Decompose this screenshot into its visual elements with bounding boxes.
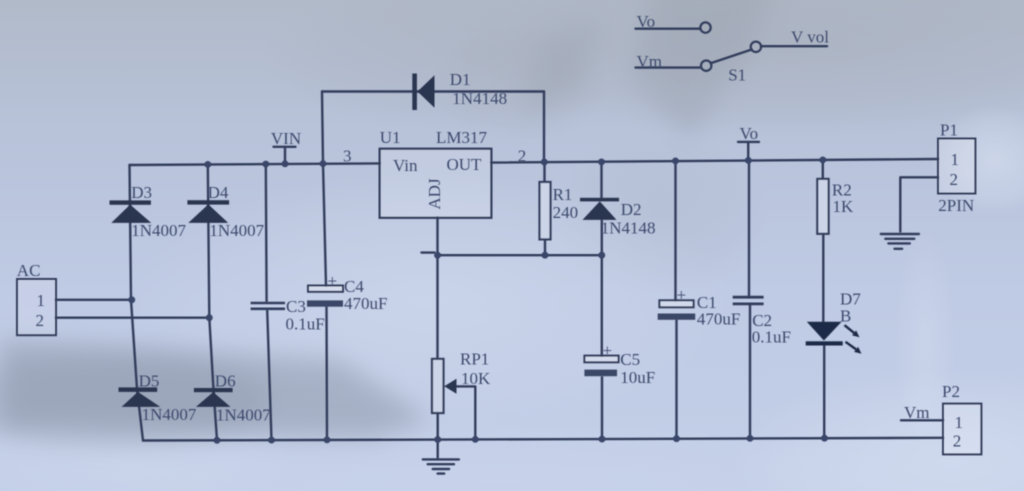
wire AC pin1 — [56, 299, 132, 301]
node C4/D1 junction — [320, 160, 327, 167]
wire D1 right riser — [543, 92, 545, 163]
node pin2/R1 junction — [541, 159, 548, 166]
diode D4 cathode bar — [187, 200, 229, 204]
svg-text:1: 1 — [955, 413, 964, 432]
diode D5 cathode bar — [119, 387, 158, 392]
potentiometer RP1 body — [432, 359, 444, 413]
svg-text:0.1uF: 0.1uF — [752, 327, 791, 346]
op-amp regulator U1 LM317 body — [380, 149, 492, 218]
LED D7 light arrow 1 — [845, 325, 860, 337]
svg-text:AC: AC — [17, 261, 41, 280]
svg-text:+: + — [328, 272, 338, 291]
svg-text:1N4007: 1N4007 — [216, 406, 271, 425]
svg-text:3: 3 — [343, 147, 352, 166]
wire C2 riser top — [748, 160, 750, 296]
wire AC pin2 — [56, 317, 209, 319]
node C3 top junction — [262, 161, 269, 168]
svg-text:P1: P1 — [940, 120, 958, 139]
node C5 bottom junction — [599, 436, 606, 443]
diode D2 triangle — [583, 201, 617, 220]
LED D7 light arrow 2 — [846, 342, 862, 354]
svg-text:1N4148: 1N4148 — [601, 218, 656, 237]
wire R2 top lead — [822, 160, 824, 179]
node C4 bottom junction — [324, 437, 331, 444]
node C2 bottom junction — [747, 435, 754, 442]
node wiper bottom junction — [472, 436, 479, 443]
diode D6 cathode bar — [194, 388, 233, 392]
svg-text:1: 1 — [951, 150, 960, 169]
wire bottom ground rail — [143, 438, 943, 441]
wire R2 to D7 — [822, 234, 824, 322]
wire RP1 wiper arm — [454, 386, 475, 439]
wire D7 bottom lead — [823, 345, 825, 438]
node Vo pin junction — [745, 157, 752, 164]
capacitor C5 negative plate — [584, 370, 617, 377]
node VIN pin marker — [274, 147, 296, 164]
diode D2 cathode bar — [580, 198, 619, 202]
diode D1 cathode bar — [412, 74, 417, 111]
node AC pin1 junction — [128, 296, 135, 303]
wire ADJ pin tick — [422, 251, 435, 253]
wire D2 bottom lead to C5 — [601, 220, 603, 356]
node D6 bottom junction — [214, 437, 221, 444]
node C3 bottom junction — [268, 437, 275, 444]
ground at P1 pin2 — [881, 234, 919, 249]
svg-text:D5: D5 — [139, 372, 160, 391]
switch S1 Vo throw contact — [700, 22, 710, 32]
svg-text:10uF: 10uF — [620, 368, 655, 387]
svg-text:D3: D3 — [131, 183, 152, 202]
svg-text:D6: D6 — [215, 372, 236, 391]
node Vo pin marker — [738, 142, 759, 161]
svg-text:470uF: 470uF — [697, 310, 740, 329]
wire R1 top lead — [543, 162, 545, 182]
wire C4 riser top — [323, 164, 326, 286]
capacitor C4 positive plate — [308, 286, 343, 292]
diode D4 triangle — [188, 204, 228, 223]
svg-text:C4: C4 — [344, 277, 364, 296]
node C1 bottom junction — [673, 435, 680, 442]
svg-text:2: 2 — [953, 431, 962, 450]
wire VIN rail left of U1 — [130, 163, 380, 165]
svg-text:V vol: V vol — [791, 27, 829, 46]
switch S1 common contact — [751, 42, 761, 52]
capacitor C1 positive plate — [659, 300, 693, 307]
ground below RP1 — [423, 440, 459, 474]
node D4 top junction — [204, 161, 211, 168]
svg-text:Vin: Vin — [393, 156, 418, 175]
diode D5 triangle — [122, 392, 161, 407]
wire D4-D6 column — [208, 164, 217, 440]
svg-text:C3: C3 — [286, 297, 306, 316]
wire RP1 bottom lead — [437, 413, 439, 440]
wire D1 left riser — [322, 92, 323, 164]
svg-text:OUT: OUT — [447, 155, 483, 174]
switch S1 Vm pole contact — [701, 60, 711, 70]
svg-text:470uF: 470uF — [344, 294, 387, 313]
node VIN pin junction — [282, 160, 289, 167]
svg-text:10K: 10K — [461, 369, 491, 388]
svg-text:1K: 1K — [833, 197, 855, 216]
wire D1 top rail — [322, 90, 544, 92]
svg-text:1N4007: 1N4007 — [209, 221, 264, 240]
svg-text:+: + — [603, 341, 613, 360]
potentiometer RP1 wiper arrow — [444, 379, 456, 394]
diode D3 triangle — [111, 205, 151, 223]
svg-text:D4: D4 — [208, 183, 229, 202]
svg-text:Vo: Vo — [740, 124, 759, 143]
wire S1 Vo throw lead — [636, 28, 700, 30]
svg-text:2: 2 — [518, 146, 527, 165]
node D2 bottom junction — [598, 252, 605, 259]
svg-text:C5: C5 — [620, 350, 640, 369]
node AC pin2 junction — [206, 314, 213, 321]
wire C1 riser bottom — [675, 320, 677, 439]
connector P2 body — [943, 404, 981, 455]
wire C5 bottom lead — [601, 377, 603, 439]
svg-text:0.1uF: 0.1uF — [286, 314, 325, 333]
LED D7 cathode bar — [806, 341, 843, 345]
svg-text:2PIN: 2PIN — [938, 196, 974, 215]
svg-text:1: 1 — [37, 291, 46, 310]
svg-text:Vm: Vm — [637, 52, 663, 71]
wire S1 Vm pole lead — [636, 66, 701, 68]
LED D7 triangle — [807, 322, 842, 341]
svg-text:R1: R1 — [553, 185, 573, 204]
wire C3 riser top — [265, 164, 268, 302]
svg-text:Vm: Vm — [904, 403, 930, 422]
svg-text:VIN: VIN — [271, 129, 301, 148]
wire S1 lever — [711, 50, 751, 63]
node ADJ junction — [434, 252, 441, 259]
capacitor C2 plates — [733, 297, 764, 304]
diode D3 cathode bar — [110, 200, 151, 204]
diode D1 triangle — [418, 75, 435, 107]
resistor R2 body — [817, 179, 828, 234]
node R2 top junction — [819, 157, 826, 164]
node RP1 bottom junction — [434, 436, 441, 443]
wire C4 riser bottom — [325, 307, 328, 440]
wire S1 common output — [762, 45, 828, 47]
wire P1 pin2 to ground — [900, 177, 938, 231]
svg-text:2: 2 — [36, 311, 45, 330]
wire VIN rail right of U1 — [491, 159, 938, 163]
node D2 top junction — [598, 159, 605, 166]
connector P1 body — [938, 139, 975, 194]
svg-text:P2: P2 — [942, 382, 960, 401]
svg-text:LM317: LM317 — [436, 128, 488, 147]
wire P2 pin1 Vm lead — [901, 419, 943, 421]
capacitor C5 positive plate — [584, 356, 618, 363]
node D7 bottom junction — [821, 435, 828, 442]
capacitor C1 negative plate — [658, 314, 696, 320]
svg-text:1N4148: 1N4148 — [452, 89, 507, 108]
diode D6 triangle — [196, 392, 231, 407]
wire D3-D5 left column — [130, 165, 144, 441]
svg-text:2: 2 — [950, 170, 959, 189]
wire R1 bottom lead — [544, 239, 546, 255]
wire ADJ vertical to RP1 — [436, 218, 438, 359]
wire C3 riser bottom — [267, 310, 271, 440]
wire C1 riser top — [674, 161, 676, 300]
wire D2 top lead — [600, 162, 602, 198]
svg-text:1N4007: 1N4007 — [131, 221, 186, 240]
svg-text:U1: U1 — [380, 128, 401, 147]
resistor R1 body — [540, 182, 551, 239]
svg-text:Vo: Vo — [637, 12, 656, 31]
svg-text:S1: S1 — [728, 66, 746, 85]
svg-text:D2: D2 — [621, 200, 642, 219]
svg-text:+: + — [677, 286, 687, 305]
node C1 top junction — [672, 158, 679, 165]
connector AC body — [17, 279, 56, 335]
wire C2 riser bottom — [749, 305, 751, 439]
svg-text:1N4007: 1N4007 — [142, 405, 197, 424]
svg-text:RP1: RP1 — [460, 350, 489, 369]
capacitor C3 plates — [251, 303, 285, 309]
svg-text:240: 240 — [553, 203, 579, 222]
capacitor C4 negative plate — [307, 300, 343, 306]
svg-text:ADJ: ADJ — [425, 178, 444, 210]
svg-text:B: B — [840, 306, 851, 325]
node R1 bottom junction — [542, 252, 549, 259]
svg-text:D1: D1 — [450, 70, 471, 89]
wire ADJ horizontal rail — [438, 254, 602, 256]
